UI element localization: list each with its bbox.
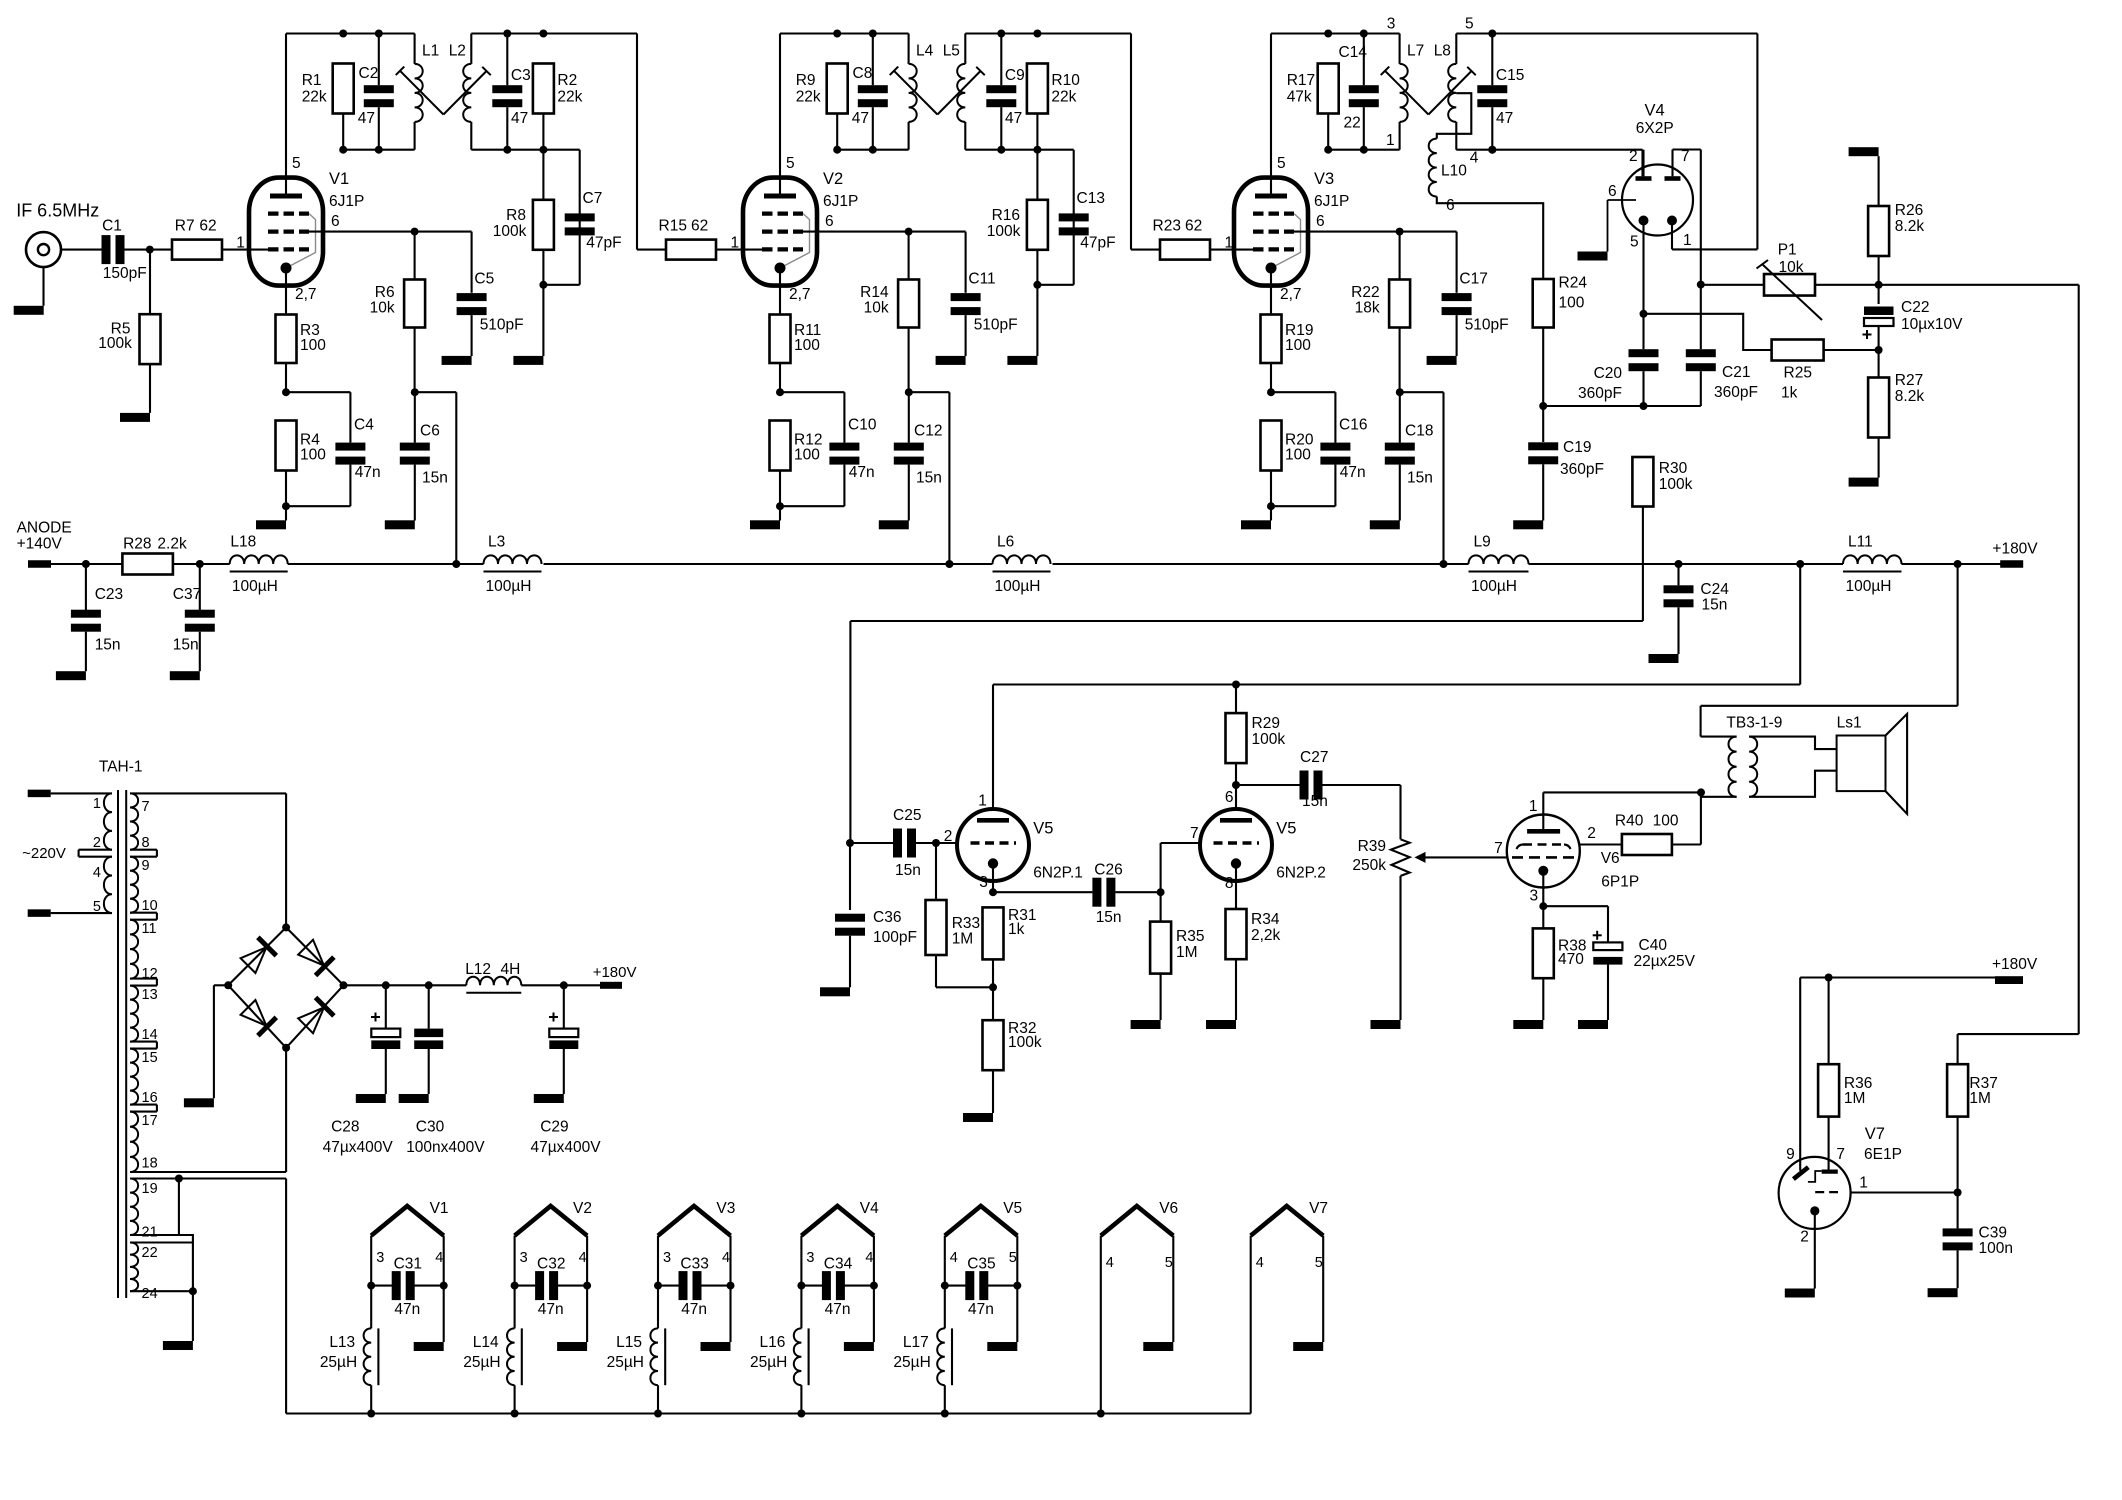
svg-text:10k: 10k: [1779, 259, 1804, 276]
svg-text:R27: R27: [1895, 372, 1923, 389]
svg-text:R8: R8: [506, 207, 526, 224]
svg-text:L4: L4: [916, 43, 934, 60]
svg-text:100µH: 100µH: [486, 578, 532, 595]
svg-text:47: 47: [358, 110, 375, 127]
svg-text:C3: C3: [511, 67, 531, 84]
svg-text:V1: V1: [329, 170, 349, 188]
svg-text:15n: 15n: [916, 469, 942, 486]
svg-text:L2: L2: [449, 43, 466, 60]
svg-text:R17: R17: [1287, 72, 1315, 89]
svg-text:3: 3: [806, 1250, 814, 1266]
svg-text:2,2k: 2,2k: [1251, 927, 1281, 944]
svg-text:V5: V5: [1033, 820, 1053, 838]
svg-text:6N2P.1: 6N2P.1: [1033, 865, 1083, 882]
svg-text:R30: R30: [1659, 460, 1688, 477]
svg-text:15n: 15n: [1702, 596, 1728, 613]
svg-text:100: 100: [1285, 337, 1311, 354]
svg-text:510pF: 510pF: [974, 316, 1018, 333]
svg-text:15n: 15n: [1302, 793, 1328, 810]
svg-text:Ls1: Ls1: [1837, 715, 1862, 732]
svg-text:10µx10V: 10µx10V: [1901, 316, 1963, 333]
svg-text:100: 100: [794, 446, 820, 463]
svg-text:1: 1: [731, 235, 740, 252]
svg-text:V1: V1: [430, 1200, 449, 1217]
svg-text:C12: C12: [914, 423, 942, 440]
svg-text:3: 3: [376, 1250, 384, 1266]
svg-text:L14: L14: [473, 1334, 499, 1351]
svg-text:C20: C20: [1594, 365, 1623, 382]
svg-text:100µH: 100µH: [1471, 578, 1517, 595]
svg-text:3: 3: [979, 874, 988, 891]
svg-text:100: 100: [1285, 446, 1311, 463]
svg-text:5: 5: [1630, 234, 1639, 251]
svg-text:C34: C34: [824, 1255, 853, 1272]
svg-text:100µH: 100µH: [232, 578, 278, 595]
svg-text:22k: 22k: [1051, 89, 1076, 106]
svg-text:4H: 4H: [501, 961, 521, 978]
svg-text:47n: 47n: [394, 1301, 420, 1318]
svg-text:P1: P1: [1778, 241, 1797, 258]
svg-text:1k: 1k: [1008, 921, 1025, 938]
svg-text:C2: C2: [359, 65, 379, 82]
svg-text:1: 1: [1859, 1175, 1868, 1192]
svg-text:L1: L1: [422, 43, 439, 60]
svg-text:47k: 47k: [1287, 89, 1312, 106]
svg-text:100: 100: [1559, 295, 1585, 312]
svg-text:R7: R7: [175, 218, 195, 235]
svg-text:360pF: 360pF: [1560, 461, 1604, 478]
svg-text:R10: R10: [1051, 72, 1080, 89]
svg-text:L13: L13: [329, 1334, 355, 1351]
svg-text:TAH-1: TAH-1: [99, 759, 143, 776]
svg-text:6: 6: [1446, 197, 1455, 214]
svg-text:L8: L8: [1434, 43, 1451, 60]
svg-text:4: 4: [865, 1250, 873, 1266]
svg-text:100n: 100n: [1979, 1240, 2013, 1257]
svg-text:7: 7: [142, 799, 150, 815]
svg-text:6E1P: 6E1P: [1864, 1146, 1902, 1163]
svg-text:6J1P: 6J1P: [823, 193, 858, 210]
svg-text:6J1P: 6J1P: [329, 193, 364, 210]
svg-text:6: 6: [1316, 213, 1325, 230]
svg-text:47n: 47n: [825, 1301, 851, 1318]
svg-text:1M: 1M: [1844, 1090, 1866, 1107]
svg-text:C15: C15: [1496, 67, 1524, 84]
svg-text:V2: V2: [823, 170, 843, 188]
svg-text:24: 24: [142, 1286, 158, 1302]
svg-text:4: 4: [722, 1250, 730, 1266]
svg-text:IF 6.5MHz: IF 6.5MHz: [16, 201, 99, 221]
svg-text:1M: 1M: [952, 931, 974, 948]
svg-text:R14: R14: [860, 284, 889, 301]
svg-text:100k: 100k: [1252, 731, 1286, 748]
svg-text:100k: 100k: [987, 223, 1021, 240]
svg-text:100nx400V: 100nx400V: [406, 1139, 485, 1156]
svg-text:22: 22: [142, 1245, 158, 1261]
svg-text:100µH: 100µH: [1846, 578, 1892, 595]
svg-text:47n: 47n: [1340, 464, 1366, 481]
svg-text:2: 2: [1800, 1229, 1809, 1246]
svg-text:R28: R28: [123, 536, 151, 553]
svg-text:1k: 1k: [1781, 385, 1798, 402]
svg-text:C40: C40: [1639, 937, 1668, 954]
svg-text:12: 12: [142, 966, 158, 982]
svg-text:V2: V2: [573, 1200, 592, 1217]
svg-text:R33: R33: [952, 915, 980, 932]
svg-text:C4: C4: [354, 416, 374, 433]
svg-text:R23: R23: [1153, 218, 1181, 235]
svg-text:4: 4: [1106, 1255, 1114, 1271]
svg-text:47: 47: [1005, 110, 1022, 127]
svg-text:C7: C7: [583, 190, 603, 207]
svg-text:C9: C9: [1005, 67, 1025, 84]
svg-text:62: 62: [199, 218, 216, 235]
svg-text:C36: C36: [873, 909, 901, 926]
svg-text:C35: C35: [967, 1255, 995, 1272]
svg-text:C30: C30: [416, 1119, 445, 1136]
svg-text:C26: C26: [1094, 861, 1122, 878]
svg-text:10k: 10k: [370, 300, 395, 317]
svg-text:R9: R9: [796, 72, 816, 89]
svg-text:1M: 1M: [1969, 1090, 1991, 1107]
svg-text:13: 13: [142, 987, 158, 1003]
svg-text:R25: R25: [1784, 365, 1812, 382]
svg-text:8: 8: [1225, 875, 1234, 892]
svg-text:22k: 22k: [557, 89, 582, 106]
svg-text:C37: C37: [173, 586, 201, 603]
svg-text:TB3-1-9: TB3-1-9: [1726, 715, 1782, 732]
svg-text:1: 1: [236, 235, 245, 252]
svg-text:150pF: 150pF: [103, 265, 147, 282]
svg-text:C1: C1: [102, 218, 122, 235]
svg-text:360pF: 360pF: [1578, 385, 1622, 402]
svg-text:R2: R2: [557, 72, 577, 89]
svg-text:18: 18: [142, 1155, 158, 1171]
svg-text:47n: 47n: [968, 1301, 994, 1318]
svg-text:100: 100: [300, 446, 326, 463]
svg-text:R15: R15: [659, 218, 687, 235]
svg-text:6J1P: 6J1P: [1314, 193, 1349, 210]
svg-text:15n: 15n: [1096, 909, 1122, 926]
svg-text:47: 47: [1496, 110, 1513, 127]
svg-text:4: 4: [93, 865, 101, 881]
svg-text:47n: 47n: [681, 1301, 707, 1318]
svg-text:47n: 47n: [355, 464, 381, 481]
svg-text:C29: C29: [540, 1119, 568, 1136]
svg-text:8.2k: 8.2k: [1895, 218, 1925, 235]
svg-text:6: 6: [1225, 789, 1234, 806]
svg-text:7: 7: [1190, 825, 1199, 842]
svg-text:5: 5: [292, 155, 301, 172]
svg-text:C5: C5: [474, 270, 494, 287]
svg-text:4: 4: [579, 1250, 587, 1266]
svg-text:4: 4: [950, 1250, 958, 1266]
svg-text:1: 1: [1529, 798, 1538, 815]
svg-text:V7: V7: [1309, 1200, 1328, 1217]
svg-text:R40: R40: [1615, 812, 1644, 829]
svg-text:R26: R26: [1895, 202, 1923, 219]
svg-text:47: 47: [852, 110, 869, 127]
svg-text:C6: C6: [420, 423, 440, 440]
svg-text:C19: C19: [1563, 439, 1591, 456]
svg-text:C21: C21: [1722, 364, 1750, 381]
svg-text:3: 3: [1530, 888, 1539, 905]
svg-text:47pF: 47pF: [1080, 234, 1115, 251]
svg-text:2,7: 2,7: [1280, 286, 1302, 303]
svg-text:C13: C13: [1077, 190, 1105, 207]
svg-text:25µH: 25µH: [463, 1354, 500, 1371]
svg-text:L18: L18: [230, 533, 256, 550]
svg-text:6: 6: [825, 213, 834, 230]
svg-text:L9: L9: [1474, 533, 1491, 550]
svg-text:25µH: 25µH: [750, 1354, 787, 1371]
svg-text:R1: R1: [302, 72, 322, 89]
svg-text:R22: R22: [1351, 284, 1379, 301]
svg-text:18k: 18k: [1355, 300, 1380, 317]
svg-text:47µx400V: 47µx400V: [531, 1139, 602, 1156]
svg-text:C32: C32: [537, 1255, 565, 1272]
svg-text:15n: 15n: [895, 862, 921, 879]
svg-text:R24: R24: [1559, 275, 1588, 292]
svg-text:1M: 1M: [1176, 944, 1198, 961]
svg-text:+180V: +180V: [593, 964, 637, 981]
svg-text:1: 1: [1386, 132, 1395, 149]
svg-text:5: 5: [1165, 1255, 1173, 1271]
svg-text:47n: 47n: [538, 1301, 564, 1318]
svg-text:100: 100: [1653, 812, 1679, 829]
svg-text:5: 5: [786, 155, 795, 172]
svg-text:V5: V5: [1003, 1200, 1022, 1217]
svg-text:+140V: +140V: [17, 536, 63, 553]
svg-text:62: 62: [1185, 218, 1202, 235]
svg-text:16: 16: [142, 1090, 158, 1106]
svg-text:3: 3: [520, 1250, 528, 1266]
svg-text:C31: C31: [394, 1255, 422, 1272]
svg-text:6P1P: 6P1P: [1601, 874, 1639, 891]
svg-text:100k: 100k: [98, 335, 132, 352]
svg-text:6N2P.2: 6N2P.2: [1276, 865, 1326, 882]
svg-text:10k: 10k: [864, 300, 889, 317]
svg-text:6X2P: 6X2P: [1636, 120, 1674, 137]
svg-text:7: 7: [1836, 1146, 1845, 1163]
svg-text:100k: 100k: [493, 223, 527, 240]
svg-text:1: 1: [93, 796, 101, 812]
svg-text:9: 9: [1786, 1146, 1795, 1163]
svg-text:1: 1: [1683, 232, 1692, 249]
svg-text:47pF: 47pF: [586, 234, 621, 251]
svg-text:2,7: 2,7: [789, 286, 811, 303]
svg-text:4: 4: [1256, 1255, 1264, 1271]
svg-text:5: 5: [1465, 16, 1474, 33]
svg-text:R35: R35: [1176, 928, 1204, 945]
svg-text:360pF: 360pF: [1714, 384, 1758, 401]
svg-text:250k: 250k: [1352, 857, 1386, 874]
svg-text:~220V: ~220V: [22, 845, 66, 862]
svg-text:R34: R34: [1251, 911, 1280, 928]
svg-text:22µx25V: 22µx25V: [1634, 953, 1696, 970]
svg-text:V7: V7: [1865, 1125, 1885, 1143]
svg-text:C27: C27: [1300, 749, 1328, 766]
svg-text:100k: 100k: [1008, 1034, 1042, 1051]
svg-text:C28: C28: [331, 1119, 359, 1136]
svg-text:V6: V6: [1601, 850, 1620, 867]
svg-text:4: 4: [435, 1250, 443, 1266]
svg-text:25µH: 25µH: [607, 1354, 644, 1371]
svg-text:R29: R29: [1252, 715, 1280, 732]
svg-text:22: 22: [1344, 115, 1361, 132]
svg-text:2: 2: [944, 828, 953, 845]
svg-text:C33: C33: [680, 1255, 708, 1272]
svg-text:2.2k: 2.2k: [157, 536, 187, 553]
svg-text:L11: L11: [1848, 533, 1873, 550]
svg-text:5: 5: [1277, 155, 1286, 172]
svg-text:47µx400V: 47µx400V: [323, 1139, 394, 1156]
svg-text:100pF: 100pF: [873, 929, 917, 946]
svg-text:5: 5: [1315, 1255, 1323, 1271]
svg-text:4: 4: [1470, 150, 1479, 167]
svg-text:47: 47: [511, 110, 528, 127]
svg-text:22k: 22k: [796, 89, 821, 106]
svg-text:1: 1: [978, 793, 987, 810]
svg-text:25µH: 25µH: [320, 1354, 357, 1371]
svg-text:6: 6: [331, 213, 340, 230]
svg-text:+180V: +180V: [1992, 540, 2038, 557]
svg-text:22k: 22k: [302, 89, 327, 106]
svg-text:8: 8: [142, 835, 150, 851]
svg-text:510pF: 510pF: [1465, 316, 1509, 333]
svg-text:9: 9: [142, 858, 150, 874]
svg-text:15n: 15n: [173, 636, 199, 653]
svg-text:470: 470: [1558, 951, 1584, 968]
svg-text:100k: 100k: [1659, 476, 1693, 493]
svg-text:C22: C22: [1901, 299, 1929, 316]
svg-text:R39: R39: [1358, 838, 1386, 855]
svg-text:C10: C10: [848, 416, 877, 433]
svg-text:15n: 15n: [422, 469, 448, 486]
svg-text:6: 6: [1608, 183, 1617, 200]
svg-text:V6: V6: [1159, 1200, 1178, 1217]
svg-text:L17: L17: [903, 1334, 929, 1351]
svg-text:15: 15: [142, 1050, 158, 1066]
svg-text:15n: 15n: [95, 636, 121, 653]
svg-text:C14: C14: [1339, 44, 1368, 61]
svg-text:+180V: +180V: [1992, 956, 2038, 973]
svg-text:L10: L10: [1441, 162, 1467, 179]
svg-text:R6: R6: [375, 284, 395, 301]
svg-text:L12: L12: [465, 961, 491, 978]
svg-text:100: 100: [794, 337, 820, 354]
svg-text:L6: L6: [997, 533, 1014, 550]
svg-text:100µH: 100µH: [995, 578, 1041, 595]
svg-text:2: 2: [1587, 825, 1596, 842]
svg-text:5: 5: [93, 899, 101, 915]
svg-text:62: 62: [691, 218, 708, 235]
svg-text:21: 21: [142, 1224, 158, 1240]
svg-text:V5: V5: [1276, 820, 1296, 838]
svg-text:L3: L3: [488, 533, 505, 550]
svg-text:V3: V3: [1314, 170, 1334, 188]
svg-text:L15: L15: [616, 1334, 642, 1351]
svg-text:25µH: 25µH: [893, 1354, 930, 1371]
svg-text:L7: L7: [1407, 43, 1424, 60]
svg-text:C17: C17: [1459, 270, 1487, 287]
svg-text:C18: C18: [1405, 423, 1433, 440]
svg-text:V4: V4: [860, 1200, 879, 1217]
svg-text:C8: C8: [853, 65, 873, 82]
svg-text:5: 5: [1009, 1250, 1017, 1266]
svg-text:19: 19: [142, 1181, 158, 1197]
svg-text:3: 3: [663, 1250, 671, 1266]
svg-text:C23: C23: [95, 586, 123, 603]
svg-text:47n: 47n: [849, 464, 875, 481]
svg-text:R16: R16: [992, 207, 1020, 224]
svg-text:17: 17: [142, 1113, 158, 1129]
svg-text:10: 10: [142, 898, 158, 914]
svg-text:2: 2: [93, 835, 101, 851]
svg-text:7: 7: [1494, 840, 1503, 857]
svg-text:L5: L5: [943, 43, 960, 60]
svg-text:V3: V3: [716, 1200, 735, 1217]
svg-text:C16: C16: [1339, 416, 1367, 433]
svg-text:14: 14: [142, 1027, 158, 1043]
svg-text:11: 11: [142, 921, 157, 937]
svg-text:L16: L16: [760, 1334, 786, 1351]
svg-text:C11: C11: [968, 270, 995, 287]
svg-text:8.2k: 8.2k: [1895, 388, 1925, 405]
svg-text:C25: C25: [893, 807, 921, 824]
svg-text:510pF: 510pF: [480, 316, 524, 333]
svg-text:ANODE: ANODE: [17, 520, 72, 537]
svg-text:15n: 15n: [1407, 469, 1433, 486]
svg-text:2,7: 2,7: [295, 286, 317, 303]
svg-text:100: 100: [300, 337, 326, 354]
svg-text:3: 3: [1387, 16, 1396, 33]
svg-text:V4: V4: [1645, 101, 1665, 119]
svg-text:2: 2: [1629, 148, 1638, 165]
